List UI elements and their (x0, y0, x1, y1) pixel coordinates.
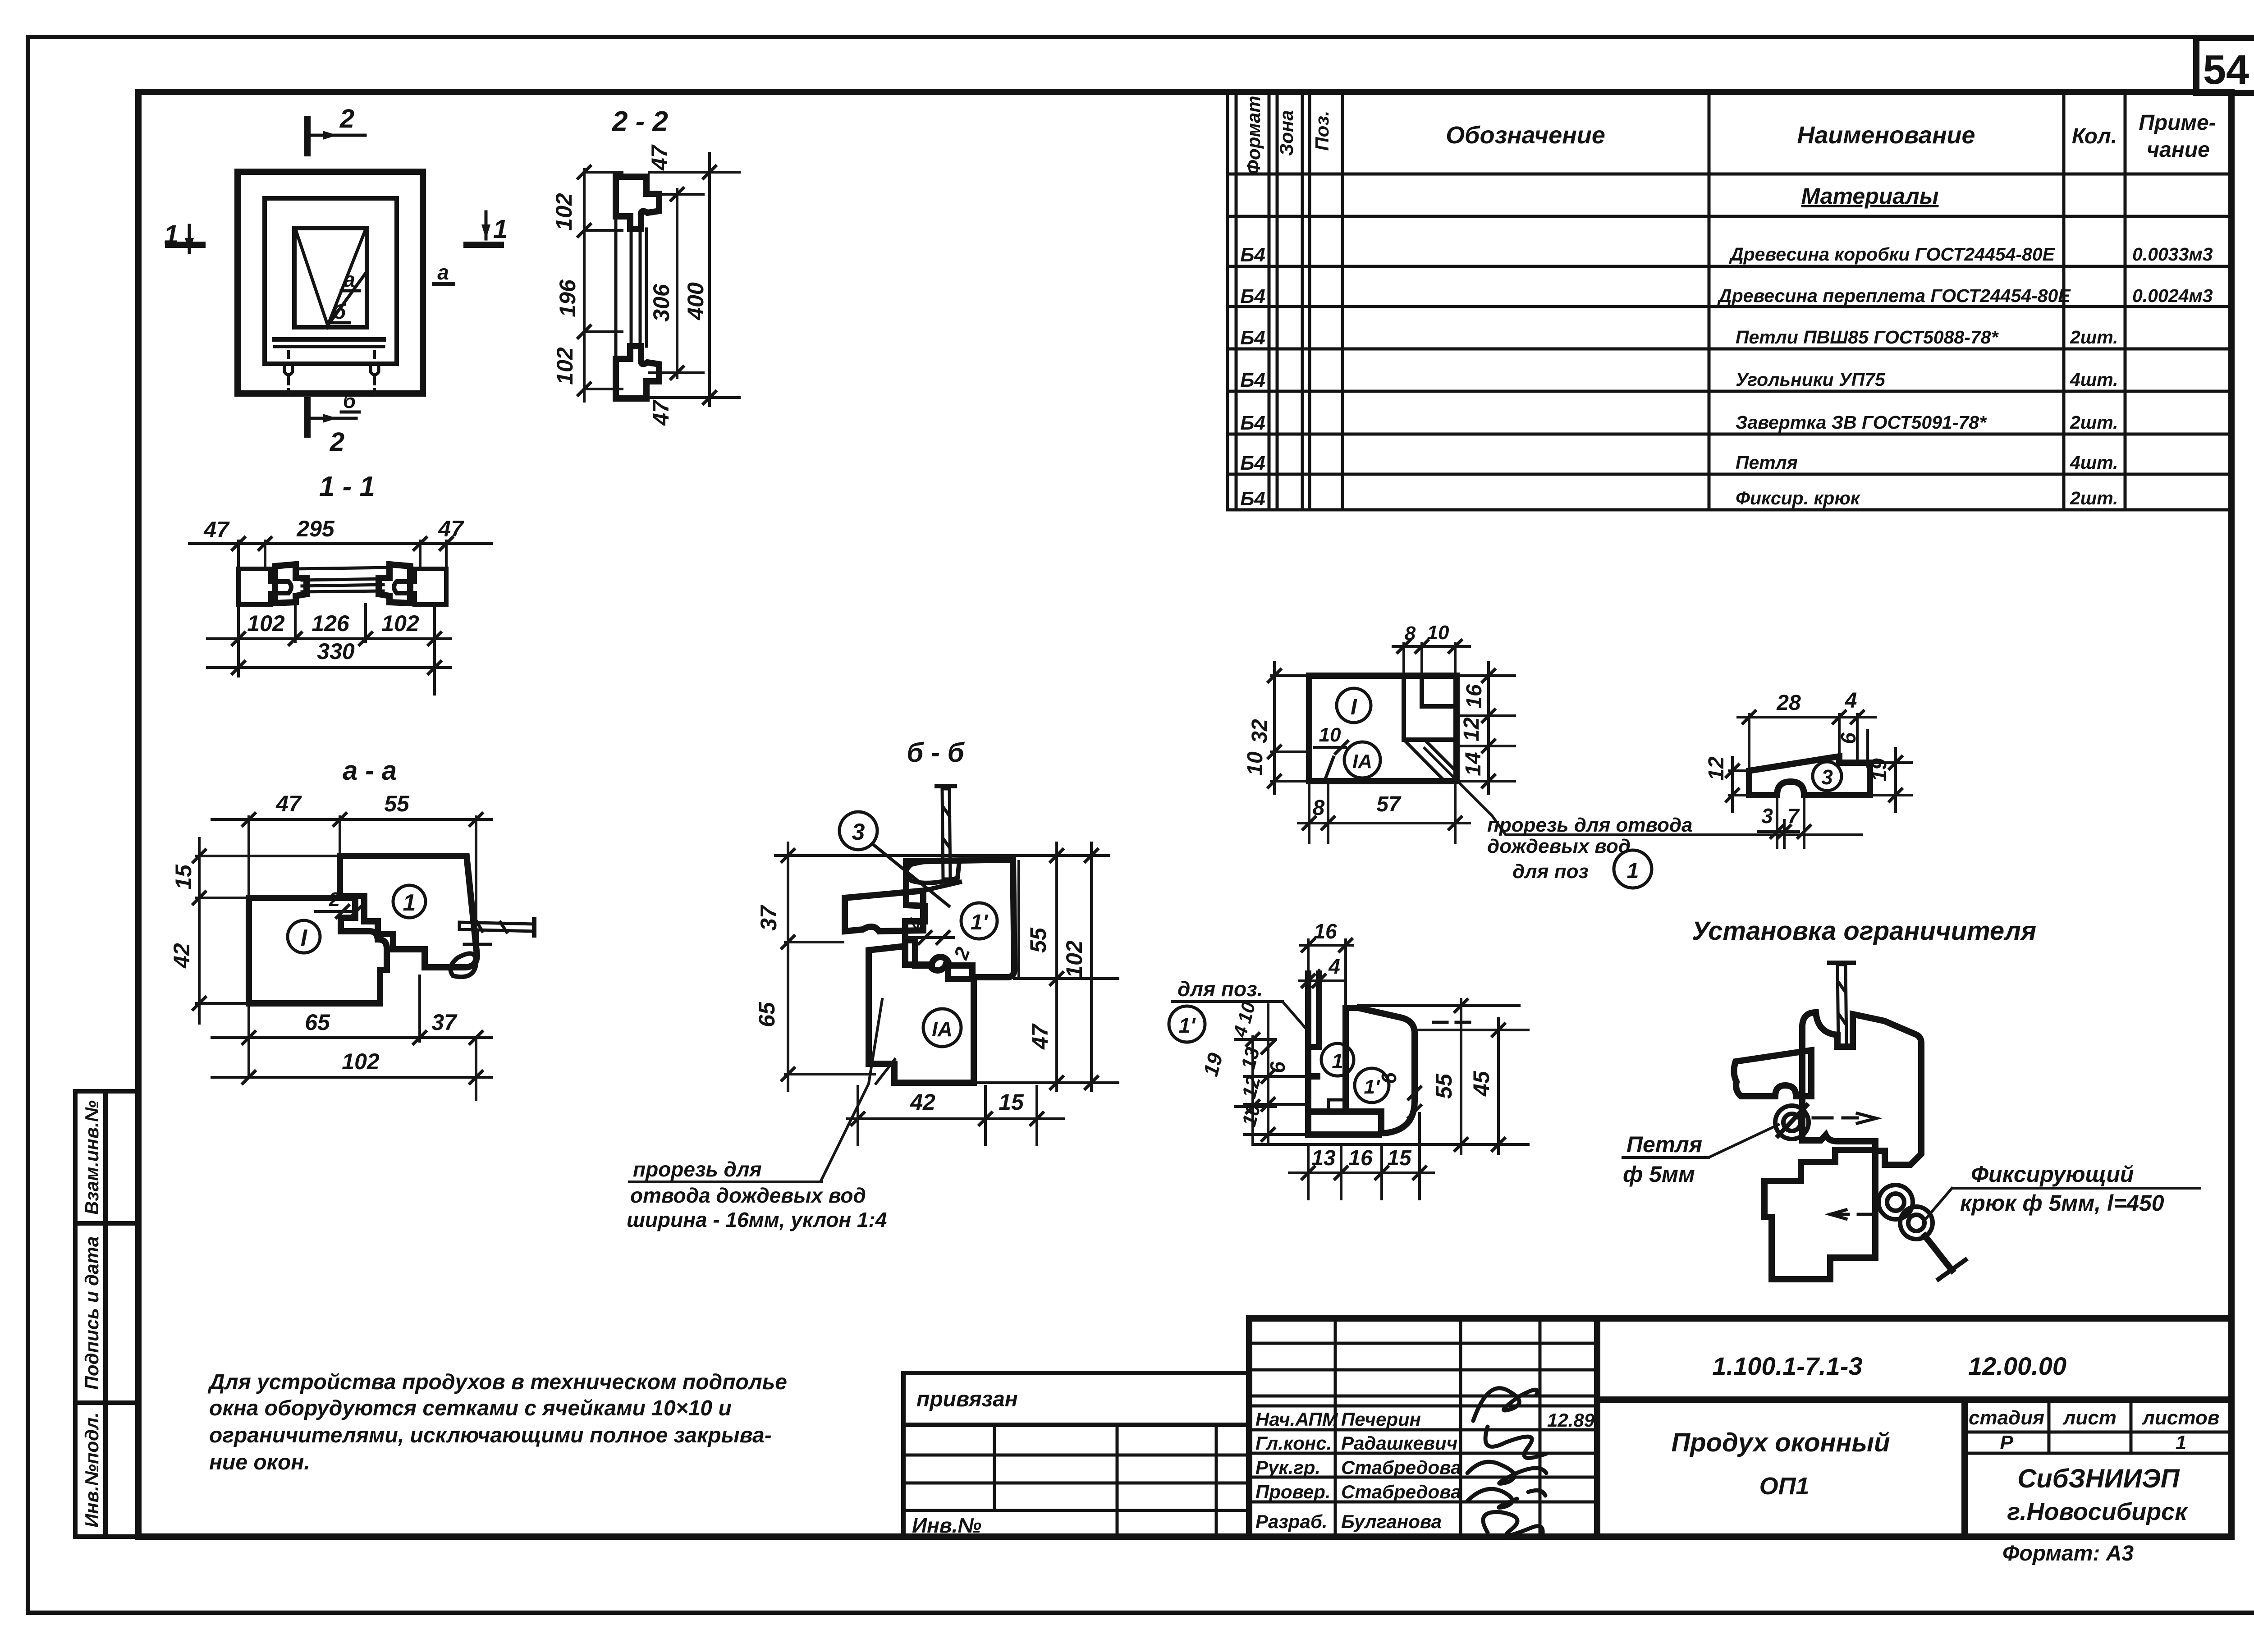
svg-text:I: I (1351, 694, 1357, 719)
svg-text:1': 1' (971, 911, 989, 934)
glass rect (294, 228, 367, 327)
top dim 28/4 (1738, 716, 1875, 718)
svg-text:7: 7 (1787, 804, 1800, 828)
leader to text (1425, 748, 1862, 835)
svg-text:1.100.1-7.1-3: 1.100.1-7.1-3 (1712, 1352, 1862, 1380)
right frame piece (394, 569, 446, 604)
svg-text:Материалы: Материалы (1801, 183, 1939, 209)
right dim 306 (676, 189, 678, 378)
bottom dims 13/16/15 (1289, 1172, 1434, 1174)
svg-text:отвода дождевых вод: отвода дождевых вод (630, 1184, 866, 1207)
leader note for б-б (627, 1158, 887, 1231)
svg-text:2: 2 (330, 427, 344, 457)
svg-text:330: 330 (317, 639, 355, 664)
svg-text:IА: IА (1352, 750, 1372, 773)
svg-text:стадия: стадия (1969, 1407, 2044, 1429)
svg-text:прорезь для отвода: прорезь для отвода (1487, 814, 1693, 836)
bottom dim 8/57 (1298, 822, 1470, 824)
svg-text:2шт.: 2шт. (2070, 412, 2118, 433)
right dims 6/19 (1866, 730, 1869, 766)
svg-text:126: 126 (312, 611, 350, 636)
svg-text:12.89: 12.89 (1547, 1409, 1595, 1431)
circle I (288, 920, 320, 953)
svg-text:г.Новосибирск: г.Новосибирск (2007, 1498, 2188, 1525)
svg-text:4шт.: 4шт. (2070, 369, 2118, 390)
svg-text:I: I (301, 925, 308, 951)
svg-text:37: 37 (431, 1010, 458, 1035)
svg-text:102: 102 (381, 611, 419, 636)
svg-text:65: 65 (754, 1002, 779, 1027)
svg-text:2шт.: 2шт. (2070, 327, 2118, 348)
svg-text:Провер.: Провер. (1255, 1481, 1331, 1502)
note text (207, 1370, 787, 1474)
left dim 12 (1731, 757, 1734, 811)
dashed arrow upper (1813, 1113, 1876, 1123)
svg-text:306: 306 (649, 284, 674, 322)
circle 1' (1355, 1068, 1389, 1103)
svg-text:б: б (343, 389, 357, 412)
svg-text:ограничителями, исключающими п: ограничителями, исключающими полное закр… (209, 1423, 772, 1447)
sash body (1346, 1008, 1415, 1133)
svg-text:Формат: А3: Формат: А3 (2002, 1542, 2134, 1565)
svg-text:4: 4 (1845, 689, 1857, 713)
svg-text:Фиксир. крюк: Фиксир. крюк (1736, 488, 1861, 508)
circle IА (923, 1009, 961, 1047)
box piece (I) (249, 898, 387, 1003)
svg-text:12.00.00: 12.00.00 (1968, 1352, 2066, 1380)
body rectangle (1309, 676, 1457, 781)
svg-text:2: 2 (339, 104, 354, 133)
svg-text:47: 47 (203, 517, 230, 542)
sash stile stubs (275, 564, 307, 603)
svg-text:IА: IА (932, 1017, 953, 1041)
svg-text:0.0033м3: 0.0033м3 (2132, 244, 2213, 265)
svg-text:3: 3 (1821, 765, 1833, 789)
svg-text:окна оборудуются сетками с яче: окна оборудуются сетками с ячейками 10×1… (209, 1396, 732, 1420)
svg-text:Угольники УП75: Угольники УП75 (1736, 369, 1886, 390)
hinge circles (1775, 1106, 1809, 1139)
svg-text:1 - 1: 1 - 1 (319, 471, 375, 502)
svg-text:Булганова: Булганова (1341, 1511, 1442, 1532)
svg-text:16: 16 (1314, 920, 1337, 943)
top dim 47/295/47 (189, 542, 491, 545)
glazing double lines (630, 229, 633, 346)
svg-text:2шт.: 2шт. (2070, 488, 2118, 508)
svg-text:1: 1 (2176, 1432, 2186, 1454)
svg-text:привязан: привязан (916, 1387, 1018, 1411)
svg-text:б: б (333, 300, 347, 323)
svg-text:а: а (437, 261, 449, 284)
svg-text:102: 102 (1062, 940, 1087, 978)
right dim 400 (708, 153, 711, 406)
top dim 8/10 (1393, 645, 1470, 648)
section mark 1 right (467, 212, 508, 245)
svg-text:8: 8 (1313, 796, 1325, 820)
drip wing piece (845, 891, 923, 931)
right dim 16/12/14 (1487, 663, 1490, 793)
svg-text:Печерин: Печерин (1341, 1409, 1421, 1430)
svg-text:Кол.: Кол. (2072, 124, 2117, 148)
svg-text:Б4: Б4 (1240, 369, 1265, 391)
left frame piece (238, 569, 291, 604)
svg-text:Взам.инв.№: Взам.инв.№ (81, 1100, 102, 1215)
svg-text:Приме-: Приме- (2139, 111, 2216, 135)
circle 3 (1813, 762, 1842, 791)
svg-text:Зона: Зона (1276, 110, 1297, 156)
bottom notch left (280, 364, 297, 375)
svg-text:47: 47 (648, 399, 673, 426)
sill double line (275, 337, 384, 342)
left margin stamp boxes (75, 1091, 138, 1537)
plan inner frame (265, 198, 397, 364)
svg-text:Фиксирующий: Фиксирующий (1971, 1162, 2134, 1187)
svg-text:СибЗНИИЭП: СибЗНИИЭП (2017, 1464, 2180, 1493)
svg-text:55: 55 (1026, 927, 1051, 953)
svg-text:295: 295 (296, 516, 335, 541)
section mark 1 left (164, 220, 202, 252)
привязан attachment block (903, 1373, 1249, 1537)
svg-text:Установка ограничителя: Установка ограничителя (1692, 916, 2036, 946)
svg-text:для поз: для поз (1512, 860, 1589, 883)
svg-text:13: 13 (1311, 1146, 1336, 1170)
svg-text:Рук.гр.: Рук.гр. (1255, 1457, 1320, 1478)
bottom notch right (367, 364, 383, 375)
svg-text:10: 10 (1427, 622, 1449, 644)
svg-text:прорезь для: прорезь для (633, 1158, 762, 1181)
inner leader diagonal (1324, 757, 1333, 781)
top dims 16 and 4 (1307, 940, 1310, 1008)
svg-text:196: 196 (555, 279, 580, 317)
left dims 19/13/12/10/6/4 (1251, 1037, 1254, 1144)
svg-text:Стабредова: Стабредова (1341, 1481, 1461, 1502)
bottom dim 330 (207, 666, 451, 669)
drip piece left (1734, 1050, 1811, 1096)
left dim 37/65 (787, 843, 789, 1091)
frame profile top piece (616, 177, 659, 229)
left dim line 102/196/102 (583, 169, 586, 401)
svg-text:Разраб.: Разраб. (1255, 1511, 1328, 1532)
svg-text:1': 1' (1179, 1014, 1196, 1037)
circle 1' (961, 903, 997, 939)
svg-text:Б4: Б4 (1240, 488, 1265, 510)
left dim 32/10 (1273, 663, 1276, 793)
leader note for detail I (1487, 814, 1693, 888)
slot verticals (1402, 676, 1406, 740)
svg-text:Наименование: Наименование (1797, 122, 1975, 149)
wedge under screw (450, 953, 476, 977)
signature squiggles (1467, 1388, 1546, 1538)
svg-text:57: 57 (1376, 792, 1402, 816)
svg-text:6: 6 (1266, 1062, 1289, 1073)
svg-text:Поз.: Поз. (1311, 111, 1333, 151)
cross mark (464, 943, 490, 946)
svg-text:3: 3 (852, 819, 865, 845)
svg-text:Стабредова: Стабредова (1341, 1457, 1461, 1478)
svg-text:Петля: Петля (1626, 1132, 1702, 1157)
bottom dim 42/15 (848, 1117, 1064, 1120)
lower frame profile (1764, 1150, 1875, 1279)
sash middle double lines (302, 579, 383, 580)
svg-text:47: 47 (438, 516, 464, 541)
svg-text:Гл.конс.: Гл.конс. (1255, 1432, 1332, 1454)
svg-text:ф 5мм: ф 5мм (1623, 1162, 1695, 1187)
svg-text:4: 4 (1328, 955, 1340, 978)
svg-text:1: 1 (1332, 1049, 1343, 1073)
svg-text:102: 102 (342, 1049, 380, 1074)
circle 1' top-left (1169, 1006, 1205, 1042)
svg-text:37: 37 (756, 905, 781, 931)
svg-text:Обозначение: Обозначение (1446, 122, 1605, 149)
svg-text:15: 15 (999, 1089, 1024, 1115)
svg-text:45: 45 (1469, 1071, 1494, 1097)
screw (1837, 965, 1846, 1047)
section mark 2 bottom (307, 400, 356, 457)
upper sash profile (1802, 1012, 1921, 1165)
svg-text:б - б: б - б (907, 737, 965, 768)
svg-text:Б4: Б4 (1240, 327, 1265, 349)
svg-text:Б4: Б4 (1240, 412, 1265, 434)
svg-text:дождевых вод: дождевых вод (1487, 835, 1631, 857)
svg-text:102: 102 (552, 347, 577, 385)
svg-text:19: 19 (1867, 758, 1891, 782)
svg-text:102: 102 (551, 193, 577, 231)
sash upper block (905, 860, 1014, 977)
right dims 55/102/47 (1055, 843, 1058, 1091)
svg-text:400: 400 (683, 282, 708, 320)
svg-text:47: 47 (275, 791, 302, 816)
screw vertical (942, 789, 950, 879)
svg-text:Нач.АПМ: Нач.АПМ (1255, 1409, 1338, 1430)
svg-text:Б4: Б4 (1240, 244, 1265, 266)
circle 1 (393, 885, 426, 918)
top dim 47/55 (212, 818, 491, 821)
svg-text:Завертка ЗВ ГОСТ5091-78*: Завертка ЗВ ГОСТ5091-78* (1736, 412, 1987, 433)
opening diagonals (296, 229, 366, 325)
svg-text:0.0024м3: 0.0024м3 (2132, 285, 2213, 306)
left long edge (614, 177, 618, 398)
svg-text:Б4: Б4 (1240, 285, 1265, 307)
svg-text:15: 15 (1387, 1146, 1412, 1170)
frame bottom piece (869, 946, 974, 1083)
svg-text:Петля: Петля (1736, 452, 1798, 473)
svg-text:102: 102 (247, 611, 285, 636)
svg-text:65: 65 (305, 1010, 330, 1035)
svg-text:Петли ПВШ85 ГОСТ5088-78*: Петли ПВШ85 ГОСТ5088-78* (1736, 327, 1999, 348)
right dims 55/45 (1460, 999, 1462, 1154)
left frame strip (1308, 974, 1379, 1135)
svg-text:Древесина коробки ГОСТ24454-80: Древесина коробки ГОСТ24454-80Е (1729, 244, 2056, 265)
svg-text:Для устройства продухов в техн: Для устройства продухов в техническом по… (207, 1370, 787, 1394)
svg-text:а: а (344, 268, 355, 291)
svg-text:55: 55 (384, 791, 410, 816)
svg-text:1: 1 (493, 215, 508, 244)
sash piece (1) (340, 856, 477, 967)
left dim 15/42 (198, 838, 201, 1023)
bottom dim 102 (212, 1076, 491, 1079)
svg-text:1: 1 (164, 220, 179, 249)
svg-text:крюк ф 5мм, l=450: крюк ф 5мм, l=450 (1960, 1190, 2164, 1216)
svg-text:1: 1 (403, 890, 416, 916)
svg-text:42: 42 (169, 943, 194, 969)
svg-text:Радашкевич: Радашкевич (1341, 1432, 1457, 1454)
svg-text:42: 42 (910, 1089, 935, 1115)
section mark 2 top (307, 104, 365, 153)
svg-text:1: 1 (1627, 859, 1639, 883)
svg-text:54: 54 (2203, 47, 2249, 93)
svg-text:листов: листов (2142, 1407, 2220, 1429)
svg-text:Древесина переплета ГОСТ24454-: Древесина переплета ГОСТ24454-80Е (1717, 285, 2071, 306)
svg-text:32: 32 (1248, 719, 1272, 743)
svg-text:Б4: Б4 (1240, 452, 1265, 474)
svg-text:ширина - 16мм, уклон 1:4: ширина - 16мм, уклон 1:4 (627, 1208, 887, 1231)
circle I (1337, 688, 1371, 723)
joint diagonal (923, 882, 960, 891)
top dim line (775, 854, 1109, 857)
svg-text:55: 55 (1431, 1073, 1457, 1099)
circle 1 (1321, 1043, 1354, 1076)
svg-text:16: 16 (1462, 684, 1486, 709)
svg-text:чание: чание (2147, 138, 2210, 162)
table grid (1228, 92, 2231, 1537)
cup groove in upper block (907, 860, 959, 883)
svg-text:6: 6 (1377, 1072, 1401, 1084)
leader to note (821, 999, 895, 1180)
svg-text:12: 12 (1460, 717, 1484, 741)
circle IА (1344, 742, 1380, 778)
svg-text:28: 28 (1776, 691, 1801, 715)
svg-text:Инв.№подл.: Инв.№подл. (81, 1412, 102, 1528)
slot diagonals (1406, 741, 1445, 781)
svg-text:15: 15 (171, 864, 196, 890)
svg-text:12: 12 (1704, 756, 1728, 781)
svg-text:лист: лист (2062, 1407, 2117, 1429)
body flat piece (1749, 756, 1870, 795)
svg-text:3: 3 (1761, 804, 1773, 828)
svg-text:Р: Р (2000, 1432, 2013, 1454)
svg-text:Продух оконный: Продух оконный (1671, 1428, 1890, 1457)
svg-text:для поз.: для поз. (1177, 977, 1263, 1001)
svg-text:а - а: а - а (343, 755, 397, 786)
svg-text:Инв.№: Инв.№ (912, 1514, 981, 1537)
plan outer frame (238, 172, 423, 394)
circle 3 with leader (839, 812, 877, 850)
bottom dim 102/126/102 (207, 637, 451, 640)
svg-text:10: 10 (1319, 724, 1341, 746)
svg-text:10: 10 (1243, 751, 1267, 776)
svg-text:4шт.: 4шт. (2070, 452, 2118, 473)
frame profile bottom piece (616, 346, 659, 398)
bottom dim 3/7 (1758, 830, 1799, 833)
svg-text:16: 16 (1348, 1146, 1373, 1170)
svg-text:2: 2 (329, 888, 340, 911)
sheet number box 54 (2196, 38, 2254, 93)
svg-text:14: 14 (1461, 752, 1485, 776)
svg-text:47: 47 (1027, 1023, 1053, 1050)
hook key circles (1878, 1185, 1913, 1219)
svg-text:8: 8 (1405, 622, 1416, 645)
svg-text:ние окон.: ние окон. (209, 1451, 310, 1474)
svg-text:ОП1: ОП1 (1759, 1473, 1810, 1500)
svg-text:Подпись и дата: Подпись и дата (81, 1236, 102, 1390)
svg-text:Формат: Формат (1243, 96, 1264, 174)
svg-text:6: 6 (1837, 732, 1860, 744)
screw right (459, 922, 534, 931)
svg-text:2 - 2: 2 - 2 (612, 106, 668, 137)
svg-text:47: 47 (647, 144, 672, 171)
dashed marks (1434, 1021, 1471, 1024)
bottom dim 65/37 (212, 1036, 491, 1039)
dashed arrow lower (1830, 1210, 1871, 1219)
